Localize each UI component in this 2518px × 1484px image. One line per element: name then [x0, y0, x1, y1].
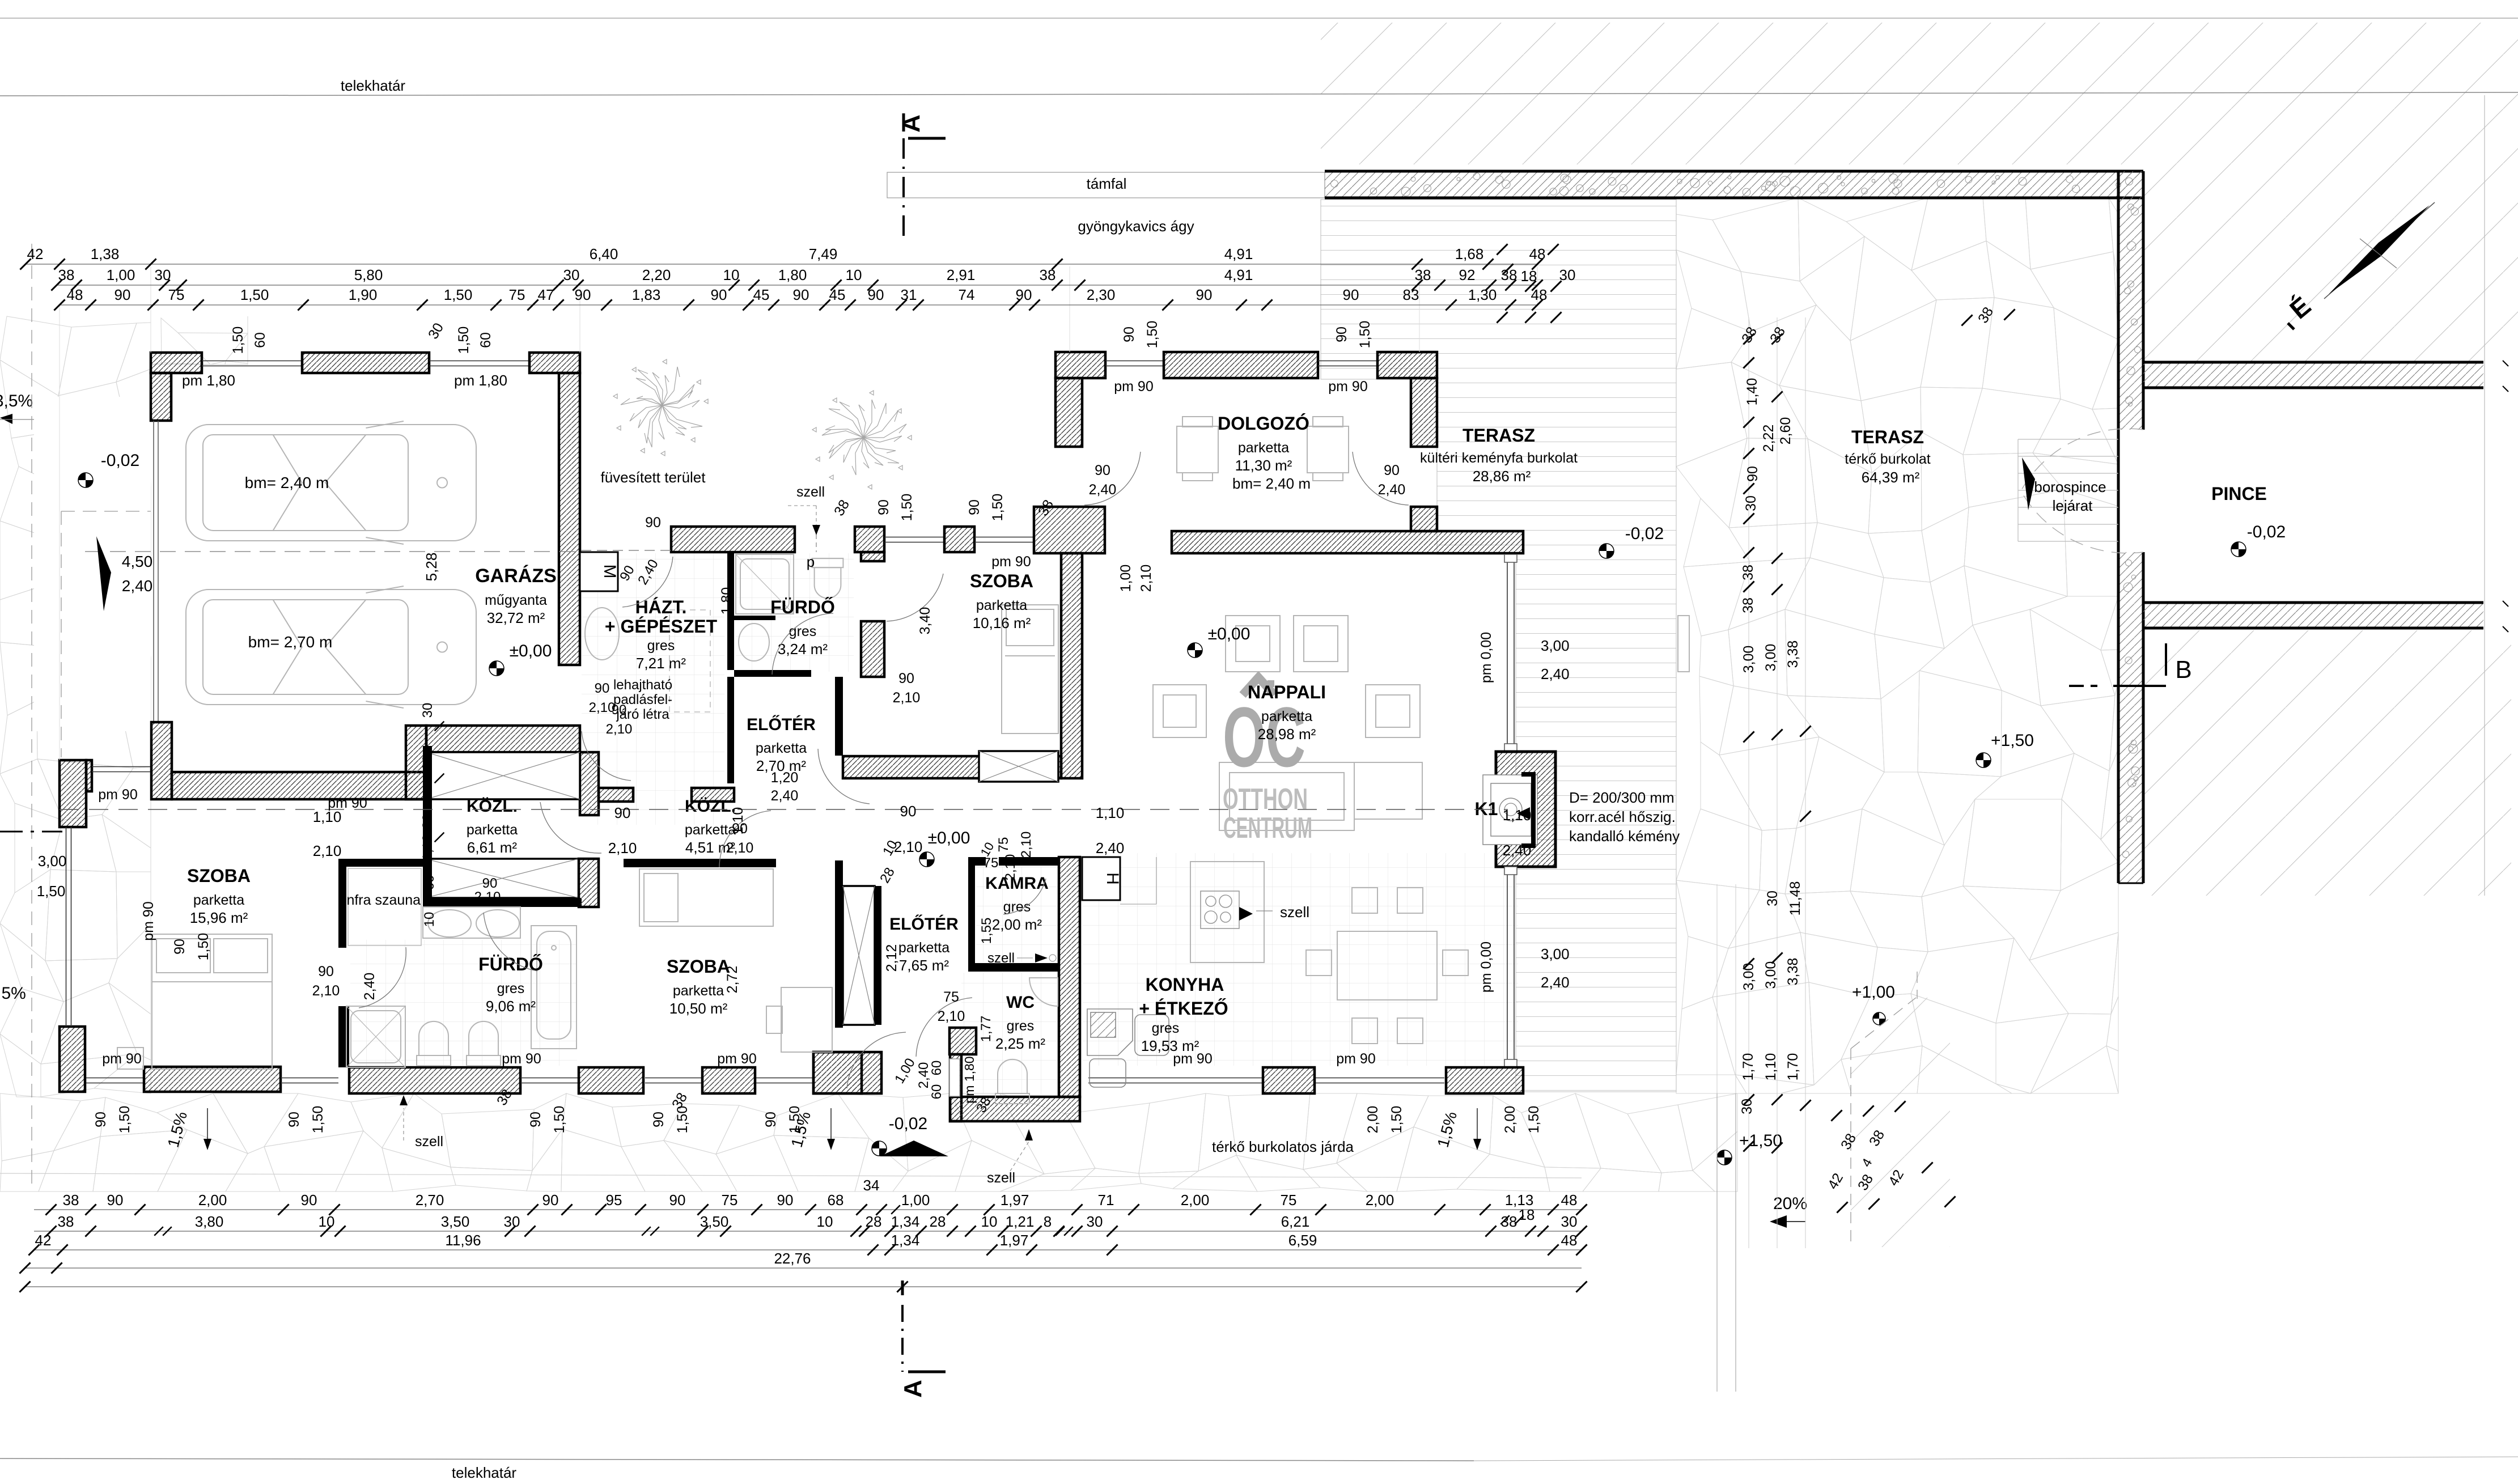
svg-text:lejárat: lejárat: [2053, 497, 2093, 514]
svg-text:szell: szell: [1280, 904, 1309, 921]
garage center dashed line: [85, 551, 579, 552]
svg-text:pm 1,80: pm 1,80: [454, 372, 507, 389]
dim row 3 line: [60, 304, 1537, 306]
svg-text:3,00: 3,00: [38, 853, 67, 870]
svg-text:7,49: 7,49: [809, 245, 838, 262]
svg-text:2,70: 2,70: [416, 1192, 444, 1209]
svg-text:-0,02: -0,02: [101, 451, 139, 470]
szell leader kitchen: [1256, 910, 1273, 911]
sofa set NAPPALI: [1153, 616, 1689, 830]
svg-text:+ ÉTKEZŐ: + ÉTKEZŐ: [1139, 998, 1228, 1019]
svg-text:30: 30: [1765, 891, 1781, 906]
hob with 4 plates: [1201, 891, 1239, 928]
dim bottom ticks D: [19, 1262, 30, 1273]
svg-text:infra szauna: infra szauna: [344, 892, 421, 908]
wood deck terrace region: [1321, 200, 1676, 1092]
level symbol garage: [489, 661, 504, 676]
svg-text:1,97: 1,97: [1000, 1232, 1029, 1249]
wall south SZOBA15 band: [144, 1067, 281, 1092]
svg-text:90: 90: [1745, 466, 1761, 482]
svg-text:pm 90: pm 90: [717, 1051, 756, 1067]
bed SZOBA10-50: [639, 869, 773, 926]
svg-text:HÁZT.: HÁZT.: [635, 597, 687, 617]
svg-text:pm 90: pm 90: [98, 787, 137, 803]
svg-text:3,38: 3,38: [1785, 958, 1801, 986]
window DOLGOZO north 2 (pm 90): [1318, 361, 1377, 362]
svg-text:1,97: 1,97: [1001, 1192, 1029, 1209]
dim bottom row D line: [25, 1267, 1582, 1269]
svg-text:90: 90: [777, 1192, 794, 1209]
svg-text:gres: gres: [1152, 1020, 1180, 1036]
shower tray FURDO324: [736, 554, 794, 614]
svg-text:20%: 20%: [1773, 1194, 1807, 1213]
svg-text:48: 48: [1529, 245, 1546, 262]
wall KOZL451 south: [624, 859, 776, 867]
svg-text:48: 48: [67, 286, 83, 303]
svg-text:OTTHON: OTTHON: [1223, 783, 1308, 816]
svg-text:gres: gres: [789, 624, 817, 639]
svg-text:1,34: 1,34: [891, 1232, 920, 1249]
ramp dashed boundary near +1,00: [1850, 1049, 1851, 1248]
svg-text:68: 68: [828, 1192, 844, 1209]
svg-text:gres: gres: [1007, 1018, 1035, 1034]
svg-text:1,10: 1,10: [1763, 1053, 1779, 1081]
svg-text:gres: gres: [497, 981, 525, 997]
svg-text:A: A: [897, 115, 925, 133]
svg-text:2,00: 2,00: [1181, 1192, 1210, 1209]
kitchen corner sink unit: [1087, 1009, 1169, 1087]
window DOLGOZO north 1 (pm 90): [1105, 361, 1164, 362]
wall ELOTER765 south-west corner: [813, 1052, 881, 1093]
wall KOZL451 west stub: [692, 788, 734, 802]
tree 1: [613, 359, 708, 456]
svg-text:1,50: 1,50: [1389, 1106, 1405, 1134]
svg-text:1,00: 1,00: [107, 266, 135, 283]
svg-text:90: 90: [286, 1112, 302, 1127]
svg-text:1,50: 1,50: [552, 1106, 567, 1134]
wall south SZOBA1050 band: [702, 1067, 755, 1093]
svg-text:28: 28: [930, 1213, 946, 1230]
door stub SZOBA10: [884, 778, 893, 779]
svg-text:1,50: 1,50: [787, 1106, 803, 1134]
shower tray FURDO324: [0, 0, 1, 1]
section marker A top: [908, 137, 946, 140]
svg-text:pm 0,00: pm 0,00: [1478, 632, 1494, 683]
ramp to cellar edge lines: [1716, 1093, 1718, 1392]
svg-text:ELŐTÉR: ELŐTÉR: [747, 715, 816, 734]
svg-text:1,70: 1,70: [1785, 1053, 1801, 1081]
door arc SZOBA1016: [887, 574, 943, 621]
svg-text:1,80: 1,80: [719, 587, 735, 615]
svg-text:3,50: 3,50: [700, 1213, 729, 1230]
axis dashed line horizontal: [60, 809, 1508, 810]
wall south-east corner: [1446, 1067, 1523, 1093]
svg-text:DOLGOZÓ: DOLGOZÓ: [1218, 413, 1309, 434]
svg-text:90: 90: [528, 1112, 544, 1127]
kitchen counter and island: [1190, 862, 1264, 963]
svg-text:pm 1,80: pm 1,80: [962, 1056, 977, 1103]
svg-text:10,16 m²: 10,16 m²: [973, 614, 1031, 631]
wall garage south band east part: [426, 726, 580, 752]
svg-text:10: 10: [723, 266, 740, 283]
window south KONYHA w1 (pm 90): [1088, 1078, 1262, 1079]
svg-text:pm 90: pm 90: [102, 1051, 141, 1067]
svg-text:3,80: 3,80: [195, 1213, 224, 1230]
wall ELOTER east: [835, 677, 843, 756]
door arc main entrance: [847, 1032, 906, 1088]
svg-text:1,50: 1,50: [240, 286, 269, 303]
retaining wall vertical: [2118, 171, 2143, 430]
door arc WC: [916, 998, 972, 1057]
washer M box: [580, 552, 618, 591]
wall KAMRA north: [968, 857, 1059, 866]
stone texture walkway south band: [0, 1093, 1737, 1192]
svg-text:38: 38: [1415, 266, 1431, 283]
svg-text:92: 92: [1459, 266, 1476, 283]
svg-text:D= 200/300 mm: D= 200/300 mm: [1569, 789, 1675, 806]
svg-text:2,60: 2,60: [1778, 417, 1794, 445]
svg-text:75: 75: [722, 1192, 738, 1209]
svg-text:83: 83: [1403, 286, 1419, 303]
svg-text:szell: szell: [415, 1134, 443, 1150]
tile floor WC: [961, 973, 1058, 1094]
glass NAPPALI east lower (3,00/2,40): [1507, 873, 1508, 1063]
svg-text:bm= 2,40 m: bm= 2,40 m: [1232, 475, 1311, 492]
svg-text:3,00: 3,00: [1741, 963, 1757, 991]
svg-text:90: 90: [107, 1192, 124, 1209]
tamfal pebble band top: [1325, 171, 2143, 198]
entrance arrow: [880, 1140, 948, 1156]
svg-text:2,10: 2,10: [474, 889, 501, 905]
svg-text:ELŐTÉR: ELŐTÉR: [889, 914, 959, 934]
svg-text:1,38: 1,38: [91, 245, 120, 262]
level symbol nappali: [1188, 643, 1202, 658]
wall corridor south-east pier: [579, 859, 599, 907]
svg-text:3,24 m²: 3,24 m²: [778, 641, 828, 658]
dim bottom ticks B: [45, 1226, 56, 1236]
wall south FURDO9 band: [349, 1067, 520, 1093]
svg-text:30: 30: [420, 703, 435, 718]
svg-text:3,00: 3,00: [1763, 961, 1779, 989]
svg-text:1,50: 1,50: [117, 1106, 133, 1134]
hob vent triangle: [1239, 907, 1253, 921]
level symbol +1,50 right: [1976, 753, 1991, 768]
svg-text:WC: WC: [1006, 993, 1035, 1012]
svg-text:pm 90: pm 90: [1328, 379, 1367, 395]
svg-text:7,65 m²: 7,65 m²: [899, 957, 949, 974]
wall FURDO east lower: [861, 621, 884, 677]
guide verticals from dim rows: [150, 266, 151, 353]
stone walkway bottom boundary: [0, 1173, 1582, 1178]
svg-text:2,91: 2,91: [947, 266, 976, 283]
dim bottom row C line: [34, 1249, 1582, 1250]
svg-text:90: 90: [645, 515, 661, 531]
window garage north 2 (1,50/60): [429, 361, 529, 362]
svg-text:90: 90: [763, 1112, 779, 1127]
svg-text:90: 90: [1196, 286, 1213, 303]
svg-text:15,96 m²: 15,96 m²: [190, 909, 248, 926]
svg-text:pm 90: pm 90: [1336, 1051, 1375, 1067]
window SZOBA15 north (90/1,50): [92, 766, 150, 768]
svg-text:szell: szell: [987, 1170, 1015, 1186]
svg-text:4,91: 4,91: [1224, 245, 1253, 262]
svg-text:6,59: 6,59: [1288, 1232, 1317, 1249]
level symbol +1,50 bottom: [1717, 1150, 1732, 1165]
svg-text:1,50: 1,50: [230, 327, 246, 354]
svg-text:64,39 m²: 64,39 m²: [1862, 469, 1920, 486]
borospince entry steps: [2018, 439, 2118, 541]
svg-text:90: 90: [115, 286, 131, 303]
wall corridor door stub: [599, 788, 633, 802]
wall garage south band step: [406, 726, 426, 799]
corner basin WC: [1029, 978, 1058, 1006]
tile floor FURDO 9,06: [350, 940, 577, 1066]
door arc FURDO906 north: [484, 913, 537, 971]
svg-text:parketta: parketta: [1238, 440, 1289, 456]
svg-text:90: 90: [876, 499, 892, 515]
svg-text:2,72: 2,72: [724, 966, 740, 994]
slope hatch right of retaining wall: [2143, 164, 2518, 362]
svg-text:parketta: parketta: [976, 597, 1027, 613]
svg-text:+1,50: +1,50: [1991, 731, 2034, 750]
svg-text:60: 60: [252, 332, 268, 348]
level symbol pince: [2231, 542, 2246, 557]
shower FURDO9: [346, 1006, 405, 1067]
window garage north 1 (1,50/60): [202, 361, 302, 362]
section marker B right: [2165, 643, 2167, 676]
svg-text:8: 8: [1044, 1213, 1052, 1230]
svg-text:1,50: 1,50: [1357, 321, 1373, 349]
svg-text:90: 90: [711, 286, 727, 303]
wall ELOTER765 wardrobe east: [875, 886, 881, 1025]
svg-text:2,00: 2,00: [1365, 1106, 1381, 1134]
dim bottom ticks E: [19, 1281, 30, 1292]
svg-text:-0,02: -0,02: [1625, 524, 1664, 543]
svg-text:90: 90: [1343, 286, 1359, 303]
svg-text:10: 10: [846, 266, 862, 283]
svg-text:2,40: 2,40: [1541, 665, 1570, 682]
slope hatch top right region: [1321, 23, 2518, 164]
svg-text:45: 45: [753, 286, 770, 303]
svg-text:1,10: 1,10: [420, 834, 435, 861]
wall garage north-west corner: [151, 353, 202, 373]
svg-text:22,76: 22,76: [774, 1250, 811, 1267]
svg-text:szell: szell: [987, 951, 1015, 966]
svg-text:2,00: 2,00: [1502, 1106, 1518, 1134]
svg-text:60: 60: [422, 875, 437, 891]
svg-text:1,50: 1,50: [37, 883, 66, 900]
svg-text:1,10: 1,10: [1503, 807, 1532, 824]
svg-text:3,38: 3,38: [1785, 641, 1801, 668]
pince south wall band: [2143, 603, 2483, 628]
svg-text:4,91: 4,91: [1224, 266, 1253, 283]
door arc KOZL661: [540, 802, 601, 853]
wall entry west block: [813, 1052, 862, 1093]
svg-text:pm 90: pm 90: [328, 795, 367, 811]
svg-text:6,40: 6,40: [590, 245, 618, 262]
fireplace black bracket: [1521, 772, 1536, 848]
svg-text:2,10: 2,10: [608, 839, 637, 857]
svg-text:90: 90: [93, 1112, 109, 1127]
svg-text:parketta: parketta: [467, 822, 518, 838]
svg-text:38: 38: [63, 1192, 79, 1209]
wall SZOBA15 west upper step: [86, 760, 92, 791]
wall garage south-west corner pier: [151, 722, 172, 799]
stone texture right terrace térkő: [1676, 198, 2118, 1093]
dining table and chairs: [1306, 888, 1468, 1044]
svg-text:90: 90: [966, 499, 982, 515]
svg-text:telekhatár: telekhatár: [452, 1464, 517, 1481]
svg-text:34: 34: [863, 1177, 880, 1194]
dash-dot left property mark: [0, 831, 62, 833]
wardrobe corridor south: [425, 859, 579, 898]
svg-text:5,28: 5,28: [423, 553, 440, 582]
svg-text:K1: K1: [1475, 799, 1498, 819]
svg-text:parketta: parketta: [1261, 709, 1312, 724]
svg-text:támfal: támfal: [1087, 175, 1127, 192]
svg-text:1,83: 1,83: [632, 286, 661, 303]
svg-text:60: 60: [929, 1061, 944, 1076]
arrow 20%: [1771, 1221, 1805, 1222]
svg-text:48: 48: [1561, 1192, 1578, 1209]
svg-text:90: 90: [669, 1192, 686, 1209]
wall garage east: [559, 373, 580, 665]
svg-text:füvesített terület: füvesített terület: [601, 469, 706, 486]
svg-text:90: 90: [542, 1192, 559, 1209]
dim bottom ticks A: [45, 1204, 56, 1215]
svg-text:5,80: 5,80: [354, 266, 383, 283]
svg-text:90: 90: [575, 286, 591, 303]
svg-text:kültéri keményfa burkolat: kültéri keményfa burkolat: [1420, 450, 1578, 466]
svg-text:6,61 m²: 6,61 m²: [467, 839, 517, 856]
telekhatar property line top: [0, 92, 2518, 96]
svg-text:SZOBA: SZOBA: [667, 956, 730, 977]
north arrow line: [2324, 202, 2435, 299]
svg-text:1,50: 1,50: [1526, 1106, 1542, 1134]
wall szauna south-west: [338, 1006, 349, 1067]
svg-text:31: 31: [901, 286, 917, 303]
wall szauna west: [338, 859, 346, 948]
driveway dashed boundary west: [31, 244, 32, 1190]
svg-text:2,40: 2,40: [1089, 482, 1117, 498]
svg-text:1,50: 1,50: [1144, 321, 1160, 349]
door arc DOLGOZO west: [1084, 452, 1141, 505]
entry door frame: [949, 1059, 960, 1096]
svg-text:2,10: 2,10: [1003, 854, 1018, 881]
svg-text:3,00: 3,00: [1741, 646, 1757, 673]
svg-text:1,34: 1,34: [891, 1213, 920, 1230]
svg-text:-0,02: -0,02: [2247, 523, 2286, 541]
svg-text:2,10: 2,10: [1019, 832, 1034, 858]
svg-text:-0,02: -0,02: [889, 1114, 927, 1133]
svg-text:11,30 m²: 11,30 m²: [1235, 457, 1292, 474]
wall south SZOBA15 pier west: [60, 1027, 85, 1092]
window south KONYHA w2 (pm 90): [1316, 1078, 1444, 1079]
dim bottom double ticks: [154, 1227, 163, 1236]
svg-text:11,48: 11,48: [1787, 881, 1803, 916]
svg-text:90: 90: [595, 681, 610, 696]
svg-text:90: 90: [900, 803, 917, 820]
svg-text:1,00: 1,00: [1118, 565, 1134, 592]
svg-text:75: 75: [996, 837, 1011, 853]
svg-text:parketta: parketta: [898, 940, 949, 956]
svg-text:parketta: parketta: [673, 983, 724, 999]
svg-text:2,40: 2,40: [1541, 974, 1570, 991]
wall partition HAZT-FURDO vertical: [727, 552, 734, 670]
stone texture top-left over garage corner: [151, 316, 248, 364]
svg-text:9,06 m²: 9,06 m²: [486, 998, 536, 1015]
door arc ELOTER765: [818, 749, 870, 804]
svg-text:60: 60: [478, 332, 494, 348]
svg-text:3,5%: 3,5%: [0, 392, 33, 410]
tamfal outline box west part: [887, 172, 1325, 198]
svg-text:75: 75: [984, 855, 999, 871]
svg-text:2,20: 2,20: [642, 266, 671, 283]
wall south KONYHA pier: [1263, 1067, 1315, 1093]
svg-text:1,50: 1,50: [990, 494, 1006, 521]
svg-text:pm 90: pm 90: [141, 901, 156, 940]
svg-text:1,50: 1,50: [444, 286, 473, 303]
svg-text:1,10: 1,10: [730, 807, 746, 835]
svg-text:SZOBA: SZOBA: [187, 866, 251, 886]
dim bottom row B line: [34, 1231, 1582, 1232]
door arc HAZT stub: [582, 731, 631, 781]
svg-text:30: 30: [420, 814, 435, 829]
svg-text:4,50: 4,50: [122, 553, 153, 570]
svg-text:TERASZ: TERASZ: [1851, 427, 1924, 447]
svg-text:pm 0,00: pm 0,00: [1478, 942, 1494, 993]
svg-text:gyöngykavics ágy: gyöngykavics ágy: [1078, 218, 1194, 235]
svg-text:18: 18: [1519, 1206, 1535, 1223]
svg-text:±0,00: ±0,00: [510, 642, 552, 660]
glass NAPPALI east upper (3,00/2,40): [1507, 560, 1508, 747]
svg-text:kandalló kémény: kandalló kémény: [1569, 828, 1680, 845]
wall SZOBA10-DOLGOZO east band: [1061, 553, 1082, 778]
svg-text:11,96: 11,96: [445, 1232, 481, 1249]
sink HAZT: [585, 608, 619, 660]
svg-text:2,00: 2,00: [198, 1192, 227, 1209]
svg-text:3,00: 3,00: [1541, 637, 1570, 654]
level symbol driveway: [78, 473, 93, 487]
svg-text:parketta: parketta: [756, 740, 807, 756]
desk DOLGOZO 1: [1177, 417, 1218, 481]
svg-text:6,21: 6,21: [1281, 1213, 1310, 1230]
svg-text:1,50: 1,50: [899, 494, 915, 521]
kitchen sink diagonal blocks: [0, 0, 1, 1]
svg-text:2,40: 2,40: [122, 577, 153, 595]
svg-text:2,12: 2,12: [884, 944, 900, 972]
wall FURDO east upper: [861, 552, 884, 561]
tile floor KONYHA: [1083, 853, 1518, 1066]
svg-text:74: 74: [959, 286, 975, 303]
svg-text:2,40: 2,40: [1096, 839, 1125, 857]
svg-text:1,55: 1,55: [979, 918, 994, 944]
svg-text:90: 90: [482, 876, 498, 891]
svg-text:2,10: 2,10: [938, 1008, 965, 1024]
car 2 in garage: [186, 586, 476, 708]
borospince door swing dashed arc: [2021, 429, 2143, 553]
svg-text:A: A: [899, 1380, 927, 1398]
svg-text:1,00: 1,00: [901, 1192, 930, 1209]
svg-text:75: 75: [168, 286, 185, 303]
svg-text:71: 71: [1098, 1192, 1114, 1209]
bed SZOBA15 double: [117, 934, 272, 1069]
svg-text:1,90: 1,90: [349, 286, 378, 303]
window south SZOBA1050 w1 (pm 90): [645, 1078, 702, 1079]
wall corridor east pier: [580, 752, 599, 815]
svg-text:műgyanta: műgyanta: [485, 592, 547, 608]
vent gap szell dashes: [816, 527, 817, 552]
